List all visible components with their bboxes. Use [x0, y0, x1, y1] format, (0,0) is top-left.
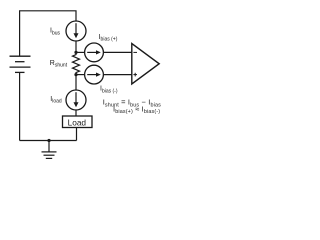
svg-text:Ibias (-): Ibias (-): [100, 86, 118, 95]
wire: [20, 11, 76, 56]
current source I_bias(+): [85, 43, 104, 62]
wire: [76, 128, 78, 141]
svg-text:Ibias (+): Ibias (+): [99, 34, 118, 43]
wire: [20, 140, 77, 142]
node ground tap: [47, 139, 50, 142]
wire: [103, 74, 131, 76]
svg-text:Iload: Iload: [50, 96, 62, 105]
wire: [103, 51, 131, 53]
node B: [74, 73, 77, 76]
wire: [75, 75, 77, 90]
current source I_bus: [66, 21, 86, 41]
svg-text:Rshunt: Rshunt: [50, 60, 68, 69]
wire: [75, 110, 77, 116]
load box: [63, 116, 93, 128]
current source I_load: [66, 90, 86, 110]
wire: [75, 41, 77, 52]
ground: [42, 152, 57, 159]
wire: [48, 141, 50, 152]
current source I_bias(-): [85, 65, 104, 84]
node A: [74, 51, 77, 54]
svg-text:Load: Load: [68, 117, 87, 127]
battery: [10, 56, 31, 72]
wire: [76, 51, 85, 53]
op-amp: [132, 44, 159, 85]
wire: [19, 72, 21, 140]
resistor R_shunt: [73, 52, 80, 74]
svg-text:Ibus: Ibus: [50, 28, 61, 37]
svg-text:Ishunt = Ibus − Ibias: Ishunt = Ibus − Ibias: [103, 98, 161, 109]
wire: [76, 74, 85, 76]
